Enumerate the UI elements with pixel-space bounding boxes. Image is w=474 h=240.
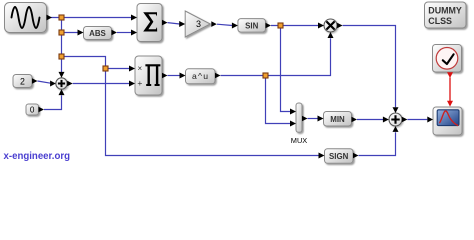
svg-text:SIGN: SIGN xyxy=(329,152,349,161)
svg-text:MUX: MUX xyxy=(291,136,307,145)
MIN input arrowhead xyxy=(318,116,324,122)
a^u block xyxy=(186,69,216,84)
wire SIN output through node J6 to product X left input xyxy=(271,25,318,27)
adder A2 circle xyxy=(389,113,402,126)
gain output port xyxy=(211,21,217,27)
product PI block xyxy=(135,56,162,95)
svg-text:DUMMY: DUMMY xyxy=(428,6,462,16)
wire node J6 down and right to MUX input 1 xyxy=(281,26,291,112)
wire constant 2 to adder A1 left input xyxy=(38,81,51,83)
constant block 0 xyxy=(26,104,39,115)
node J6 xyxy=(278,23,283,28)
adder A1 left input arrowhead xyxy=(50,81,56,87)
adder A2 left input arrowhead xyxy=(383,117,389,123)
wire MIN output to adder A2 left input xyxy=(357,119,383,121)
svg-text:ABS: ABS xyxy=(89,29,106,38)
node J2 xyxy=(59,30,64,35)
node J1 xyxy=(59,15,64,20)
PI output port xyxy=(162,73,168,79)
MUX input 1 arrowhead xyxy=(290,109,296,115)
MUX output port xyxy=(302,116,308,122)
svg-text:x-engineer.org: x-engineer.org xyxy=(4,151,71,162)
wire node J2 to ABS input xyxy=(62,32,79,34)
svg-text:a^u: a^u xyxy=(192,71,209,81)
ABS output port xyxy=(112,30,118,36)
ABS input arrowhead xyxy=(78,30,84,36)
sum input 1 arrowhead xyxy=(131,15,137,21)
clock red circle xyxy=(436,48,458,70)
MIN block xyxy=(324,112,352,127)
adder A2 bottom input arrowhead xyxy=(393,126,399,132)
SIN input arrowhead xyxy=(232,23,238,29)
gain input arrowhead xyxy=(179,21,185,27)
MUX block xyxy=(296,103,302,132)
wire constant 0 up into adder A1 bottom input xyxy=(44,95,62,109)
node J4 xyxy=(103,66,108,71)
gain block value 3 xyxy=(185,11,210,37)
SIGN input arrowhead xyxy=(319,153,325,159)
clock hands xyxy=(443,54,454,64)
product X left input arrowhead xyxy=(318,23,324,29)
svg-text:+: + xyxy=(137,78,142,88)
SIN output port xyxy=(266,23,272,29)
adder A1 top input arrowhead xyxy=(59,72,65,78)
wire clock red output down to scope top xyxy=(449,78,451,102)
scope block xyxy=(433,107,462,135)
wire left vertical bus from node J1 down to adder A1 top xyxy=(61,18,63,73)
svg-text:3: 3 xyxy=(196,19,201,29)
product X output port xyxy=(337,23,343,29)
ABS block xyxy=(84,27,112,40)
svg-text:×: × xyxy=(137,64,142,73)
wire gain output to SIN input xyxy=(217,24,232,25)
svg-text:SIN: SIN xyxy=(245,22,258,31)
node J3 xyxy=(59,54,64,59)
adder A1 output port xyxy=(67,81,73,87)
product X bottom input arrowhead xyxy=(328,32,334,38)
scope screen icon xyxy=(437,110,459,126)
wire MUX output to MIN input xyxy=(308,118,318,120)
PI symbol xyxy=(145,64,160,86)
wire SIGN output right then up to adder A2 bottom input xyxy=(359,132,396,155)
wire ABS output to sum block input 2 xyxy=(117,32,132,34)
sine source output port xyxy=(47,15,53,21)
wire a^u output through node J5 then up into product X bottom input xyxy=(221,38,331,75)
MUX input 2 arrowhead xyxy=(290,121,296,127)
adder A1 circle xyxy=(56,78,67,89)
clock block xyxy=(433,45,462,73)
sum block sigma xyxy=(137,4,162,42)
sine wave icon xyxy=(12,7,40,28)
node J5 xyxy=(263,73,268,78)
svg-text:MIN: MIN xyxy=(330,115,345,124)
DUMMY CLSS block xyxy=(425,2,467,28)
sum output port xyxy=(162,20,168,26)
wire sine output to sum block input 1 xyxy=(51,17,132,19)
wire sum output to gain input xyxy=(168,23,180,24)
SIN block xyxy=(238,19,266,32)
wire node J5 down and right to MUX input 2 xyxy=(266,76,291,124)
constant 2 output port xyxy=(32,78,38,84)
svg-text:0: 0 xyxy=(30,105,35,114)
wire product PI output to a^u input xyxy=(168,75,181,77)
scope input arrowhead xyxy=(427,117,433,123)
scope red input arrowhead xyxy=(447,101,453,107)
MIN output port xyxy=(352,117,358,123)
scope red trace xyxy=(439,111,458,126)
wire adder A1 output to product PI divide input xyxy=(73,83,130,85)
a^u output port xyxy=(215,73,221,79)
wire adder A2 output to scope input xyxy=(407,119,427,121)
X symbol xyxy=(327,22,334,29)
adder A1 plus symbol xyxy=(58,80,65,87)
constant block 2 xyxy=(13,75,32,88)
SIGN output port xyxy=(353,153,359,159)
svg-text:2: 2 xyxy=(20,76,25,86)
wire node J3 right, down past node J4, along bottom to SIGN input xyxy=(62,57,319,156)
svg-text:CLSS: CLSS xyxy=(428,16,452,26)
adder A1 bottom input arrowhead xyxy=(59,89,65,95)
sigma symbol xyxy=(143,12,157,31)
adder A2 plus symbol xyxy=(391,115,399,123)
sum input 2 arrowhead xyxy=(131,30,137,36)
adder A2 output port xyxy=(402,117,408,123)
sine wave source block xyxy=(5,3,47,33)
wire product X output right then down to adder A2 top input xyxy=(343,26,396,108)
wire node J4 to product PI times input xyxy=(106,68,130,70)
a^u input arrowhead xyxy=(180,73,186,79)
constant 0 output port xyxy=(39,107,45,113)
product X circle block xyxy=(324,19,337,32)
PI input 2 arrowhead xyxy=(129,81,135,87)
adder A2 top input arrowhead xyxy=(393,107,399,113)
PI input 1 arrowhead xyxy=(129,66,135,72)
clock red output port xyxy=(447,72,453,78)
SIGN block xyxy=(325,149,354,164)
